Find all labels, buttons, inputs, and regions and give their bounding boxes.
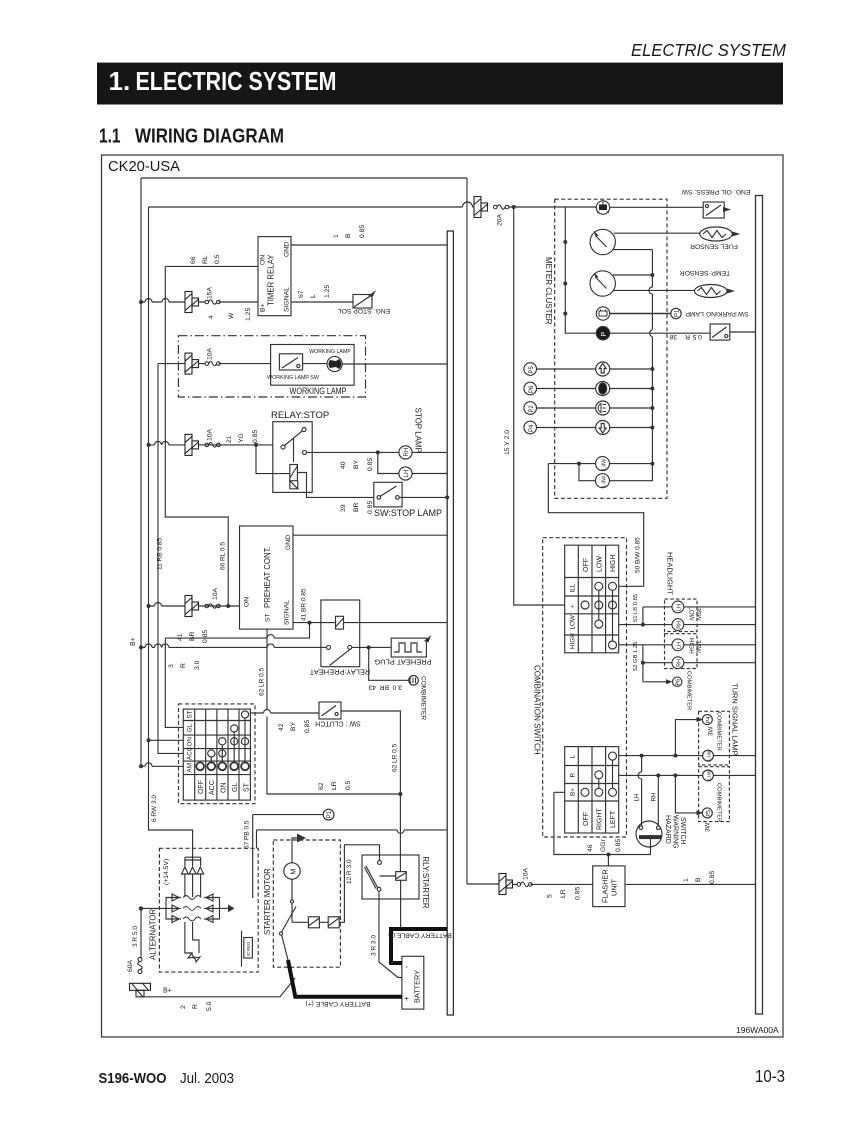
working lamp dash-dot box: [178, 336, 365, 397]
svg-text:62 LR 0.5: 62 LR 0.5: [259, 667, 266, 696]
svg-text:GL: GL: [232, 783, 239, 792]
svg-text:SWITCH: SWITCH: [679, 817, 686, 845]
svg-text:0.85: 0.85: [575, 887, 582, 900]
svg-text:SW:PARKING LAMP: SW:PARKING LAMP: [685, 310, 749, 317]
diagram border: [102, 155, 784, 1037]
lamp turn RH 2.1W: [703, 770, 714, 781]
junction SIGNAL: [308, 621, 312, 625]
wire: RH to ground bus: [412, 451, 447, 453]
lighting switch table: [565, 545, 619, 653]
lamp STOP LH: [399, 467, 412, 480]
svg-text:RELAY:PREHEAT: RELAY:PREHEAT: [309, 668, 370, 677]
junction plug node: [367, 645, 371, 649]
wire: left vertical B+ bus x=141: [140, 178, 142, 767]
svg-text:LH: LH: [677, 642, 683, 649]
wire: 57PB to starter solenoid: [252, 815, 254, 898]
svg-text:P4: P4: [529, 424, 535, 432]
svg-text:0.5: 0.5: [345, 780, 352, 790]
wire: fuel gauge return: [612, 249, 652, 251]
wire: starter ground return to bus: [257, 830, 448, 848]
switch ENG. OIL PRESS. SW: [681, 188, 750, 218]
wire: battery to preheat relay contact with hops: [141, 646, 327, 648]
svg-text:1.25: 1.25: [324, 285, 331, 298]
svg-text:COMBIMETER: COMBIMETER: [716, 783, 722, 822]
starter motor dashed box: [273, 840, 340, 967]
indicator COMBIMETER (glow): [409, 676, 419, 686]
heater PREHEAT PLUG: [374, 635, 431, 667]
solenoid coil 1: [308, 917, 319, 928]
preheat controller box: [240, 526, 294, 629]
svg-text:HIGH: HIGH: [569, 633, 576, 649]
svg-text:ON: ON: [244, 597, 251, 607]
wire: temp gauge top to return: [613, 274, 652, 276]
wire: high beam telltale arm: [643, 681, 666, 683]
svg-text:RH: RH: [677, 659, 683, 667]
junction flasher tap: [606, 853, 610, 857]
timer relay box: [258, 237, 291, 316]
svg-text:RL: RL: [202, 255, 209, 264]
svg-text:RIGHT: RIGHT: [597, 808, 604, 831]
fuse 10A holder (stop): [185, 434, 199, 455]
relay RLY:STARTER: [362, 855, 430, 909]
svg-text:0.5: 0.5: [214, 254, 221, 264]
switch SW:STOP LAMP: [374, 482, 442, 518]
telltale row P5: [524, 362, 655, 376]
wire: B+ feed to turn switch: [554, 792, 651, 854]
ground bus bar right: [756, 196, 763, 1015]
svg-text:196WA00A: 196WA00A: [736, 1025, 779, 1035]
svg-text:67: 67: [298, 290, 305, 298]
indicator P6 high beam: [673, 677, 682, 686]
svg-text:0.85: 0.85: [367, 501, 374, 514]
wire: cluster return vertical: [651, 250, 653, 464]
svg-text:4: 4: [208, 315, 215, 319]
ground (alternator frame): [220, 907, 229, 909]
wire: high beam splits: [643, 645, 672, 682]
svg-text:20A: 20A: [497, 213, 504, 226]
wire: preheat ST drop (62LR riser): [267, 629, 400, 794]
svg-text:ST: ST: [187, 710, 194, 718]
wire: ILL out: [619, 585, 644, 587]
svg-text:B: B: [695, 877, 702, 882]
svg-text:ALTERNATOR: ALTERNATOR: [149, 909, 158, 960]
wire: bus 15Y2.0 vertical to lighting switch: [514, 207, 565, 605]
svg-text:39: 39: [340, 504, 347, 512]
junction preheat feed: [147, 604, 151, 608]
lamp headlight LH high: [672, 639, 684, 651]
svg-text:ACC: ACC: [187, 746, 194, 760]
wire: plug sense to combimeter: [369, 647, 409, 680]
relay coil (hatched): [290, 465, 298, 481]
junction 62LR: [398, 792, 402, 796]
junction: coil tap: [254, 443, 258, 447]
svg-text:3 R 3.0: 3 R 3.0: [371, 935, 378, 956]
svg-text:15A: 15A: [207, 286, 214, 299]
svg-text:ON: ON: [221, 783, 228, 794]
svg-text:WORKING LAMP: WORKING LAMP: [309, 349, 351, 355]
fuse 15A element: [205, 300, 220, 305]
turn signal lamp dashed boxes: [699, 711, 730, 765]
svg-text:3 R 5.0: 3 R 5.0: [132, 926, 139, 947]
wire: timer ON feed: [165, 265, 258, 267]
regulator IC REG: [242, 931, 253, 967]
svg-text:HIGH: HIGH: [688, 638, 695, 654]
svg-text:3W: 3W: [705, 822, 712, 832]
svg-text:R: R: [569, 773, 576, 778]
indicator P1 (starter telltale): [323, 809, 334, 820]
key switch dashed box: [179, 704, 256, 804]
svg-text:GND: GND: [284, 242, 291, 257]
svg-text:RLY:STARTER: RLY:STARTER: [421, 857, 430, 909]
relay FLASHER UNIT: [593, 866, 625, 907]
svg-text:0.85: 0.85: [202, 630, 209, 643]
wire: blade to solenoid coils: [292, 845, 380, 923]
wire: stop relay feed with hops: [149, 444, 273, 446]
junction: stop lamp split: [376, 450, 380, 454]
svg-text:L: L: [569, 755, 576, 759]
svg-text:11 RB 0.85: 11 RB 0.85: [157, 538, 164, 570]
wire: B+ output: [141, 907, 166, 909]
svg-text:TEMP. SENSOR: TEMP. SENSOR: [680, 269, 731, 276]
junction 66RL drop: [226, 604, 230, 608]
svg-text:P1: P1: [327, 810, 333, 818]
svg-text:41: 41: [177, 633, 184, 641]
wire: LH stop branch: [378, 452, 399, 473]
svg-text:35W: 35W: [695, 608, 702, 621]
svg-text:LH: LH: [404, 470, 410, 478]
svg-text:6 RW 3.0: 6 RW 3.0: [151, 795, 158, 822]
svg-text:BY: BY: [290, 721, 297, 731]
svg-text:43: 43: [368, 684, 376, 691]
wire: oil telltale to switch: [610, 206, 704, 208]
lamp headlight RH low: [672, 619, 684, 631]
wire: parking switch to ground bus: [730, 331, 756, 333]
svg-text:LH: LH: [634, 793, 641, 802]
svg-text:2.1W: 2.1W: [707, 770, 713, 782]
svg-text:RH: RH: [404, 448, 410, 457]
svg-text:ENG. STOP SOL: ENG. STOP SOL: [338, 307, 390, 314]
fuse 10A element: [517, 882, 532, 887]
svg-text:66 RL 0.5: 66 RL 0.5: [220, 542, 227, 570]
svg-text:46: 46: [587, 844, 594, 852]
wire: fuel gauge to sensor: [614, 232, 700, 234]
gauge FUEL: [590, 229, 615, 254]
svg-text:41 BR 0.85: 41 BR 0.85: [301, 588, 308, 621]
svg-text:RH: RH: [651, 792, 658, 802]
svg-text:WORKING LAMP SW: WORKING LAMP SW: [267, 375, 319, 381]
svg-text:1.: 1.: [109, 66, 131, 96]
wire: top feed loop B+: [141, 177, 467, 179]
svg-text:HIGH: HIGH: [610, 555, 617, 573]
svg-text:SW : CLUTCH: SW : CLUTCH: [315, 720, 361, 727]
svg-text:AM: AM: [187, 763, 194, 772]
working lamp inner box: [271, 345, 355, 386]
contact circles: [241, 711, 248, 718]
svg-text:LOW: LOW: [569, 615, 576, 629]
turn switch contacts: [609, 752, 617, 760]
wire: battery feed B+: [140, 978, 295, 997]
wire: HIGH out: [619, 644, 643, 646]
svg-text:S196-WOO: S196-WOO: [99, 1070, 167, 1087]
wire: timer SIGNAL to stop solenoid: [291, 301, 353, 303]
svg-text:B+: B+: [260, 303, 267, 312]
svg-text:BATTERY: BATTERY: [413, 970, 422, 1003]
wire: temp gauge to sensor: [614, 289, 695, 291]
rectifier top diodes: [182, 867, 204, 874]
svg-text:-: -: [402, 966, 411, 969]
fuse 10A element: [205, 443, 220, 448]
wire: B+ to fuse 15A with hops: [141, 301, 258, 303]
svg-text:OFF: OFF: [583, 558, 590, 572]
combination switch dashed box: [543, 538, 627, 837]
rectifier top bus: [185, 857, 201, 860]
wire: low beam splits: [643, 607, 672, 625]
headlight dashed boxes: [665, 599, 698, 632]
svg-text:STOP LAMP: STOP LAMP: [414, 408, 423, 454]
svg-text:0.85: 0.85: [359, 225, 366, 238]
svg-text:ON: ON: [187, 737, 194, 747]
wire: coil feed drop: [256, 445, 290, 474]
svg-text:P5: P5: [706, 810, 712, 817]
sensor TEMP. SENSOR: [680, 269, 735, 298]
svg-text:ELECTRIC SYSTEM: ELECTRIC SYSTEM: [631, 40, 786, 60]
svg-text:SW:STOP LAMP: SW:STOP LAMP: [374, 508, 442, 518]
relay contacts and blade: [281, 445, 285, 449]
wire: clutch to starter relay: [341, 711, 400, 794]
svg-text:35W: 35W: [695, 640, 702, 653]
svg-text:+: +: [402, 996, 411, 1001]
wire: stop switch to ground bus: [399, 496, 447, 498]
svg-text:52 GB 1.25: 52 GB 1.25: [633, 642, 639, 671]
lamp headlight LH low: [672, 601, 684, 613]
svg-text:TURN SIGNAL LAMP: TURN SIGNAL LAMP: [731, 683, 740, 756]
svg-text:GL: GL: [187, 724, 194, 733]
svg-text:ELECTRIC SYSTEM: ELECTRIC SYSTEM: [136, 66, 337, 96]
svg-text:B+: B+: [569, 788, 576, 796]
svg-text:+: +: [569, 604, 576, 608]
svg-text:R: R: [180, 663, 187, 668]
svg-text:P4: P4: [706, 717, 712, 724]
relay preheat contacts: [327, 645, 331, 649]
svg-text:1.1: 1.1: [99, 125, 121, 148]
svg-text:3.0: 3.0: [392, 684, 402, 691]
svg-text:LEFT: LEFT: [610, 810, 617, 828]
svg-text:TIMER RELAY: TIMER RELAY: [267, 254, 276, 306]
svg-text:COMBINATION SWITCH: COMBINATION SWITCH: [533, 665, 542, 755]
junction on ground bus: [445, 495, 449, 499]
svg-text:B: B: [345, 233, 352, 238]
wire: relay output to stop lamps: [307, 451, 399, 453]
motor M: [284, 863, 300, 879]
svg-text:OFF: OFF: [198, 780, 205, 794]
svg-text:R: R: [192, 1004, 199, 1009]
relay stop box: [273, 422, 312, 493]
svg-text:LOW: LOW: [597, 556, 604, 572]
wire: flasher to ground bus: [625, 883, 756, 885]
stator and diode bridge: [166, 894, 220, 923]
svg-text:L: L: [310, 294, 317, 298]
svg-text:ACC: ACC: [209, 780, 216, 795]
svg-text:LH: LH: [677, 604, 683, 611]
battery cable negative (thick): [391, 929, 447, 963]
relay RELAY:PREHEAT box: [321, 600, 360, 667]
turn signal switch table: [565, 747, 619, 833]
indicator parking telltale: [596, 327, 609, 340]
svg-text:P5: P5: [529, 365, 535, 373]
wire: alternator B+ down to main fuse: [140, 908, 142, 957]
lighting switch contacts: [595, 582, 603, 590]
lamp STOP RH: [399, 446, 412, 459]
svg-text:57 PB 0.5: 57 PB 0.5: [244, 820, 251, 849]
svg-text:62: 62: [318, 782, 325, 790]
svg-text:3: 3: [168, 664, 175, 668]
wire: R output: [619, 774, 703, 776]
wires: headlights to ground bus: [684, 607, 756, 663]
svg-text:PREHEAT CONT.: PREHEAT CONT.: [263, 546, 272, 608]
wire: LH drop to hazard (hop at R wire): [641, 756, 643, 827]
svg-text:10-3: 10-3: [755, 1066, 785, 1086]
section title bar: [97, 63, 783, 105]
wire: preheat SIGNAL output: [293, 622, 447, 624]
fusible link holder (main): [130, 983, 151, 997]
svg-text:LR: LR: [560, 889, 567, 898]
svg-text:0.5: 0.5: [692, 333, 702, 340]
svg-text:WARNING: WARNING: [672, 815, 679, 849]
svg-text:BATTERY CABLE (+): BATTERY CABLE (+): [305, 1000, 370, 1007]
wire: lamp to ground bus: [342, 363, 447, 365]
svg-text:ENG. OIL PRESS. SW: ENG. OIL PRESS. SW: [681, 188, 750, 195]
fuse 10A element: [205, 604, 220, 609]
svg-text:METER CLUSTER: METER CLUSTER: [544, 257, 553, 325]
meter cluster dashed box: [555, 199, 667, 498]
svg-text:Jul. 2003: Jul. 2003: [180, 1071, 234, 1087]
wire: P5 telltale arm: [675, 775, 696, 813]
starter switch blade: [282, 907, 297, 933]
svg-text:10A: 10A: [523, 867, 530, 880]
svg-text:0.85: 0.85: [709, 871, 716, 884]
fuse 10A element: [205, 361, 220, 366]
svg-text:RELAY:STOP: RELAY:STOP: [271, 410, 329, 421]
wire: signal drop to key GL riser (hops ST drop): [165, 623, 309, 639]
switch WORKING LAMP SW: [267, 354, 319, 381]
wire: timer GND to ground bus: [291, 244, 447, 246]
junction: meter feed node: [512, 205, 516, 209]
telltale row P4: [524, 421, 655, 435]
contact stems: [211, 718, 245, 762]
svg-text:M: M: [291, 869, 298, 875]
svg-text:21: 21: [226, 435, 233, 443]
fuse 10A holder (preheat): [185, 596, 199, 617]
svg-text:1: 1: [333, 234, 340, 238]
svg-text:COMBIMETER: COMBIMETER: [420, 676, 427, 720]
fuse 20A element: [494, 205, 509, 210]
wire: L output: [619, 755, 703, 757]
svg-text:10A: 10A: [207, 347, 214, 360]
svg-text:CK20-USA: CK20-USA: [108, 158, 180, 175]
svg-text:IC REG: IC REG: [246, 941, 251, 956]
wire: flasher feed from frame: [467, 883, 593, 885]
svg-text:BY: BY: [353, 459, 360, 469]
wire: preheat ON feed: [149, 605, 240, 607]
svg-text:ST: ST: [265, 613, 272, 622]
svg-text:B+: B+: [163, 988, 172, 995]
svg-text:5: 5: [547, 894, 554, 898]
relay diode: [290, 481, 298, 489]
svg-text:40: 40: [340, 461, 347, 469]
svg-text:0.85: 0.85: [367, 458, 374, 471]
svg-text:P1: P1: [675, 309, 681, 317]
svg-text:COMBIMETER: COMBIMETER: [686, 671, 692, 710]
svg-text:2.1W: 2.1W: [707, 750, 713, 762]
svg-text:0.85: 0.85: [304, 720, 311, 733]
switch SW:PARKING LAMP: [685, 310, 749, 340]
fuse 15A holder: [185, 292, 199, 313]
svg-text:B+: B+: [130, 637, 137, 646]
telltale row P6: [524, 382, 655, 396]
svg-text:0.85: 0.85: [252, 430, 259, 443]
wire: ON feed: [147, 738, 151, 742]
svg-text:(+14.5V): (+14.5V): [163, 859, 170, 885]
svg-text:10A: 10A: [207, 428, 214, 441]
svg-text:OFF: OFF: [583, 812, 590, 826]
svg-text:10A: 10A: [212, 587, 219, 600]
wire: illumination feed riser: [548, 464, 643, 587]
svg-text:GND: GND: [285, 535, 292, 550]
svg-text:42: 42: [278, 723, 285, 731]
wire: relay coil return to battery cable: [392, 880, 401, 929]
svg-text:P2: P2: [529, 404, 535, 412]
wire: vertical 11RB x=158 to key ACC: [158, 364, 183, 754]
fuse 10A holder (working lamp): [185, 353, 199, 374]
indicator P1: [671, 308, 681, 318]
telltale row P2: [524, 401, 655, 415]
lamp WORKING LAMP 21W: [309, 349, 351, 372]
wire: ACC/ON feed y=207 with hop over x=467: [149, 206, 597, 208]
svg-text:SIGNAL: SIGNAL: [284, 287, 291, 312]
wire: AM feed: [139, 764, 143, 768]
indicator P5: [702, 808, 712, 818]
svg-text:62 LR 0.5: 62 LR 0.5: [392, 743, 399, 772]
wire: timer ON to key GL riser x=165.3: [165, 266, 228, 606]
wire: cluster feeder: [565, 207, 596, 333]
fuse 20A holder: [474, 197, 488, 218]
svg-text:R: R: [685, 333, 690, 340]
lamp turn LH 2.1W: [703, 750, 714, 761]
switch SW : CLUTCH: [315, 702, 361, 727]
svg-text:PREHEAT PLUG: PREHEAT PLUG: [374, 658, 431, 667]
rotor field coil: [185, 922, 200, 962]
svg-text:YG: YG: [238, 433, 245, 443]
svg-text:FLASHER: FLASHER: [601, 869, 610, 903]
solenoid coil 2: [328, 917, 339, 928]
svg-text:ST: ST: [244, 782, 251, 792]
fuse 60A element: [127, 958, 142, 974]
svg-text:WORKING LAMP: WORKING LAMP: [290, 386, 347, 397]
wire: right feeder vertical (to flasher fuse): [466, 178, 468, 884]
svg-text:ON: ON: [260, 255, 267, 265]
lamp headlight RH high: [672, 657, 684, 669]
svg-text:ILL.: ILL.: [569, 582, 576, 593]
wire: working lamp feed: [158, 363, 271, 365]
relay preheat coil: [336, 616, 344, 629]
junction B+ row: [139, 645, 143, 649]
svg-text:51 LB 0.85: 51 LB 0.85: [633, 594, 639, 622]
indicator oil pressure telltale: [596, 201, 609, 214]
wire: to combimeter P1: [253, 814, 324, 816]
svg-text:LOW: LOW: [688, 606, 695, 620]
svg-text:RH: RH: [677, 621, 683, 629]
svg-text:BR: BR: [353, 502, 360, 512]
